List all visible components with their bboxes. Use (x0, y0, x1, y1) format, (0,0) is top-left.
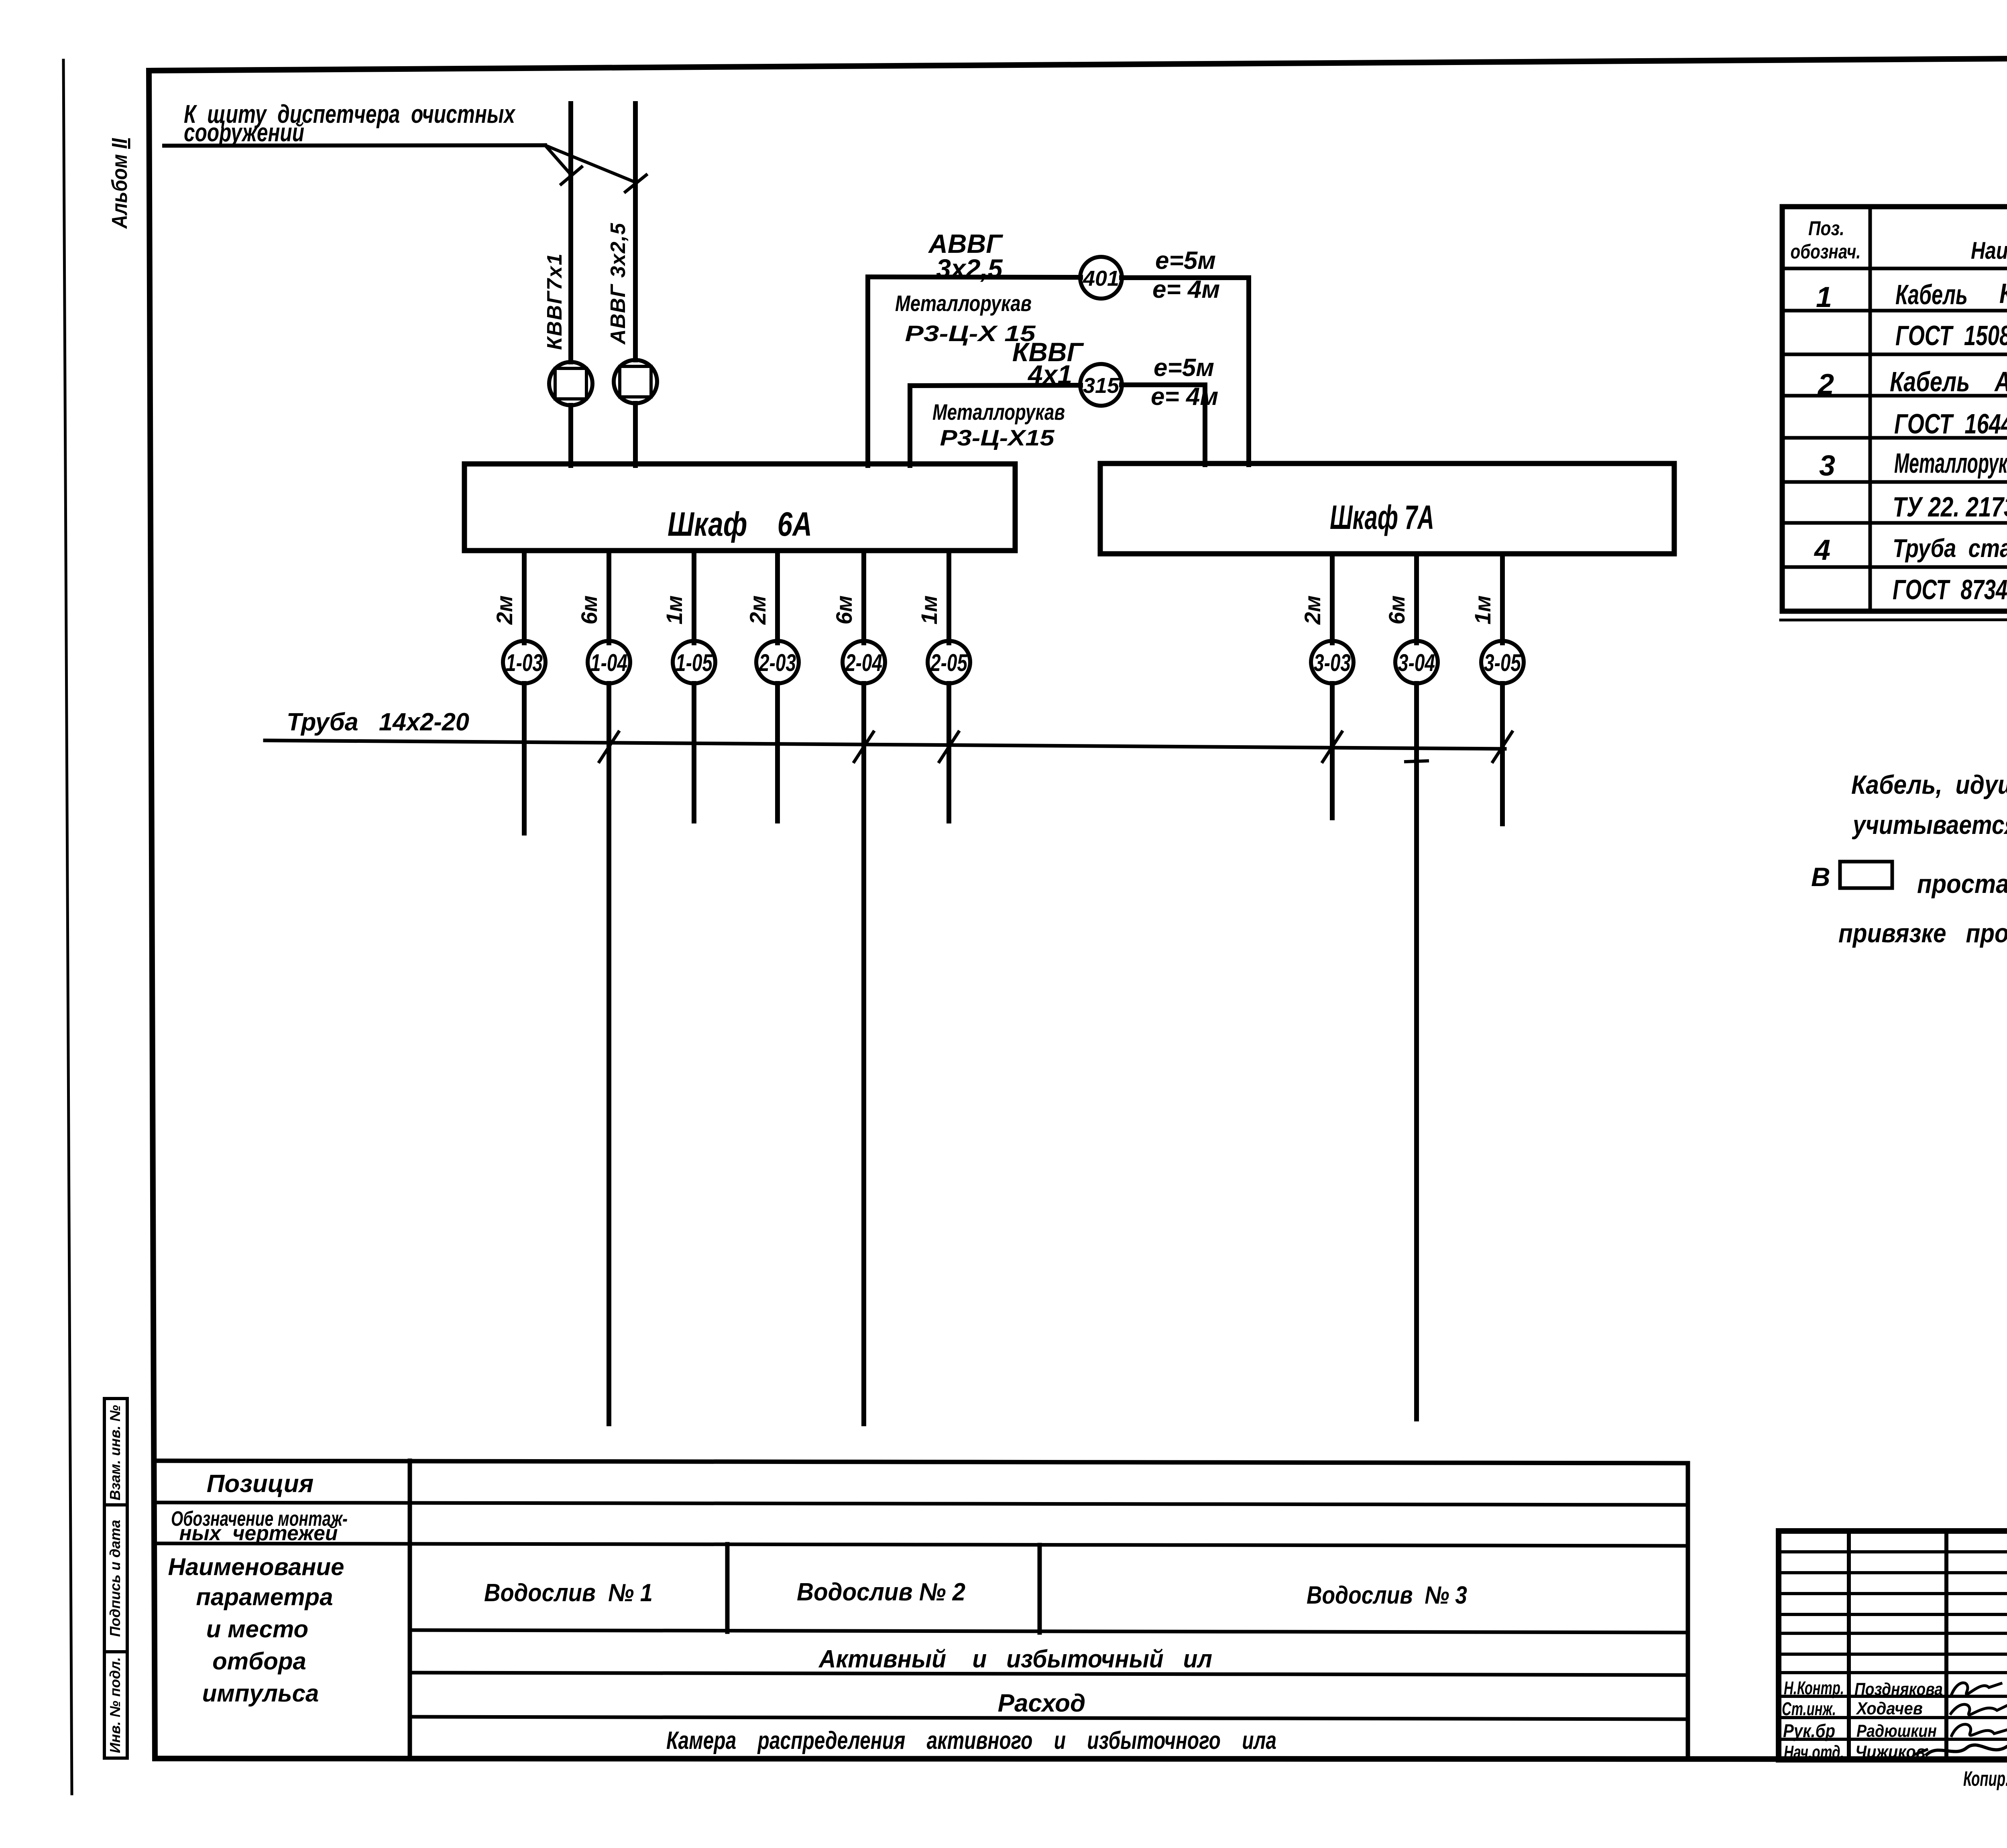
svg-text:Водослив № 3: Водослив № 3 (1307, 1582, 1467, 1609)
svg-text:2-04: 2-04 (845, 649, 882, 676)
svg-text:Н.Контр.: Н.Контр. (1784, 1677, 1844, 1698)
svg-text:сооружений: сооружений (184, 118, 304, 147)
svg-text:Ст.инж.: Ст.инж. (1782, 1698, 1836, 1719)
pipe break slash at 2152 (854, 732, 873, 762)
svg-text:ГОСТ 1508-75: ГОСТ 1508-75 (1895, 320, 2007, 351)
svg-text:Металлорукав: Металлорукав (895, 291, 1032, 316)
wire cable KVVG 7x1 upper (568, 104, 573, 362)
svg-text:Инв. № подл.: Инв. № подл. (107, 1657, 123, 1753)
node 315 cable number circle (1080, 364, 1122, 406)
sensor circle 1-03 (503, 641, 546, 683)
svg-text:Позиция: Позиция (207, 1470, 313, 1498)
svg-text:6м: 6м (1384, 596, 1409, 625)
wire cable AVVG 3x2,5 upper (633, 104, 638, 360)
sensor circle 2-03 (756, 641, 799, 683)
pipe break slash at 3319 (1323, 732, 1342, 762)
wire below 2-03 (775, 683, 780, 821)
row line below rashod (410, 1717, 1688, 1719)
svg-text:3-04: 3-04 (1398, 649, 1435, 676)
svg-text:2м: 2м (492, 596, 517, 625)
svg-text:Шкаф 6А: Шкаф 6А (668, 505, 812, 543)
title block left rows (1779, 1552, 2007, 1739)
svg-text:1: 1 (1816, 281, 1832, 313)
svg-text:ГОСТ 8734-75: ГОСТ 8734-75 (1893, 574, 2007, 605)
connector seal symbol on AVVG cable (614, 360, 657, 403)
wire cable AVVG 3x2,5 lower (633, 403, 638, 466)
svg-text:параметра: параметра (196, 1584, 333, 1610)
svg-text:Альбом II: Альбом II (108, 138, 132, 230)
position table row line 2 (155, 1543, 1688, 1546)
sensor circle 2-04 (843, 641, 885, 683)
wire drop line 2-05 (947, 551, 951, 643)
sensor circle 3-05 (1481, 641, 1524, 683)
svg-text:Радюшкин: Радюшкин (1856, 1721, 1937, 1741)
title block left columns (1849, 1531, 2007, 1760)
svg-text:е=5м: е=5м (1155, 247, 1216, 274)
wire drop line 3-05 (1500, 554, 1505, 643)
svg-text:КВВГ7х1: КВВГ7х1 (543, 254, 566, 350)
wire drop line 2-04 (861, 551, 866, 643)
svg-text:Ходачев: Ходачев (1855, 1699, 1923, 1718)
svg-text:Чижиков: Чижиков (1855, 1742, 1926, 1762)
sensor circle 1-04 (588, 641, 630, 683)
note box symbol (1840, 862, 1892, 888)
svg-text:Взам. инв. №: Взам. инв. № (107, 1405, 123, 1500)
title block outer (1779, 1531, 2007, 1760)
wire cable KVVG 7x1 lower (568, 405, 573, 466)
svg-text:ГОСТ 16442-80: ГОСТ 16442-80 (1894, 408, 2007, 439)
pipe break slash at 3743 (1493, 732, 1512, 762)
svg-text:Водослив № 2: Водослив № 2 (797, 1578, 965, 1606)
svg-text:Расход: Расход (998, 1689, 1086, 1717)
signature Nach.otd (1927, 1744, 2007, 1754)
pipe break slash at 1517 (599, 732, 619, 762)
svg-text:ных чертежей: ных чертежей (179, 1522, 338, 1545)
svg-text:Наименование: Наименование (168, 1553, 344, 1580)
svg-text:Подпись и дата: Подпись и дата (107, 1520, 123, 1637)
left margin strip (104, 1399, 127, 1758)
svg-text:3-05: 3-05 (1484, 649, 1521, 676)
parts table outer (1782, 207, 2007, 611)
svg-text:2-05: 2-05 (930, 649, 968, 676)
svg-text:учитывается в отдельном: учитывается в отдельном проекте. (1852, 810, 2007, 840)
paper edge left (63, 60, 72, 1794)
svg-text:е= 4м: е= 4м (1152, 276, 1220, 303)
parts table columns (1870, 207, 2007, 611)
svg-text:отбора: отбора (212, 1648, 306, 1675)
svg-text:проставляется номер ка: проставляется номер кабеля при (1917, 869, 2007, 899)
svg-text:Труба 14х2-20: Труба 14х2-20 (287, 708, 469, 736)
parts table row lines (1782, 268, 2007, 567)
wire below 1-05 (692, 683, 696, 821)
wire below 3-05 (1500, 683, 1505, 824)
svg-text:КВВГ 4х1: КВВГ 4х1 (1999, 278, 2007, 309)
svg-text:Труба стальная бесшовная 14х: Труба стальная бесшовная 14х2-20 (1893, 534, 2007, 563)
svg-text:3: 3 (1819, 450, 1835, 482)
connector seal symbol on KVVG cable (549, 362, 592, 405)
sensor circle 3-03 (1311, 641, 1354, 683)
svg-text:4: 4 (1814, 534, 1830, 566)
wire drop line 3-03 (1330, 554, 1335, 643)
cabinet U6A box (464, 464, 1015, 551)
position table top (155, 1461, 1688, 1463)
pipe junction tick at 3-04 (1406, 761, 1427, 762)
node 401 cable number circle (1080, 257, 1122, 299)
signature Ruk.br (1952, 1724, 2007, 1736)
svg-text:Кабель: Кабель (1895, 279, 1968, 310)
svg-text:1-03: 1-03 (506, 649, 543, 676)
wire below 2-05 (947, 683, 951, 821)
svg-text:6м: 6м (576, 596, 602, 625)
vodosliv cell separator 2 (1038, 1545, 1042, 1633)
svg-text:315: 315 (1083, 374, 1120, 398)
svg-text:Копир. Лаврухина: Копир. Лаврухина (1963, 1767, 2007, 1791)
svg-text:Рук.бр: Рук.бр (1783, 1720, 1835, 1741)
svg-text:Водослив № 1: Водослив № 1 (484, 1579, 653, 1607)
wire AVVG 3x2,5 loop to cabinet 7A (868, 277, 1249, 466)
svg-text:привязке проекта.: привязке проекта. (1838, 918, 2007, 948)
svg-text:импульса: импульса (202, 1680, 319, 1707)
wire drop line 1-05 (692, 551, 696, 643)
svg-text:2м: 2м (1300, 596, 1325, 625)
wire drop line 2-03 (775, 551, 780, 643)
row line below vodosliv (410, 1630, 1688, 1633)
svg-text:1м: 1м (662, 596, 687, 625)
svg-text:АВВГ 3х2,5: АВВГ 3х2,5 (607, 223, 630, 345)
row line below aktivny (410, 1673, 1688, 1675)
wire leader to KVVG cable (545, 145, 572, 175)
signature N.Kontr (1952, 1683, 2001, 1694)
svg-text:Камера распределения акт: Камера распределения активного и избыточ… (666, 1727, 1276, 1754)
svg-text:ТУ 22. 2173-71: ТУ 22. 2173-71 (1893, 491, 2007, 522)
wire drop line 1-03 (522, 551, 527, 643)
svg-text:Кабель, идущий к щиту д: Кабель, идущий к щиту диспетчера, (1851, 770, 2007, 799)
sensor circle 3-04 (1395, 641, 1438, 683)
wire drop line 3-04 (1414, 554, 1419, 643)
svg-text:обознач.: обознач. (1791, 240, 1861, 263)
svg-text:Наименование: Наименование (1971, 237, 2007, 264)
svg-text:Позднякова: Позднякова (1854, 1679, 1943, 1699)
svg-text:Активный и избыточный и: Активный и избыточный ил (818, 1645, 1212, 1673)
wire below 1-03 (522, 683, 527, 833)
wire below 3-03 (1330, 683, 1335, 818)
svg-text:401: 401 (1083, 266, 1119, 291)
svg-text:Кабель АВВГ- 3х2,5: Кабель АВВГ- 3х2,5 (1890, 366, 2007, 397)
wire below 1-04 (607, 683, 611, 1424)
svg-text:3х2,5: 3х2,5 (936, 254, 1003, 283)
svg-text:Металлорукав Р3-Ц-Х 15: Металлорукав Р3-Ц-Х 15 (1894, 447, 2007, 479)
svg-text:Шкаф 7А: Шкаф 7А (1330, 498, 1434, 536)
note leader underline (164, 145, 545, 146)
svg-text:1м: 1м (1470, 596, 1495, 625)
svg-text:Поз.: Поз. (1808, 217, 1844, 240)
sensor circle 1-05 (673, 641, 715, 683)
pipe line Truba 14x2-20 (265, 740, 1505, 749)
position table right edge (1686, 1463, 1690, 1759)
svg-text:В: В (1811, 862, 1830, 892)
cabinet U7A box (1100, 464, 1674, 554)
svg-text:Р3-Ц-Х15: Р3-Ц-Х15 (940, 425, 1055, 450)
svg-text:и место: и место (206, 1616, 308, 1643)
sensor circle 2-05 (928, 641, 970, 683)
vodosliv cell separator 1 (725, 1544, 730, 1632)
svg-text:Металлорукав: Металлорукав (932, 399, 1065, 425)
position table header separator (408, 1461, 412, 1759)
svg-text:3-03: 3-03 (1314, 649, 1351, 676)
svg-text:1-05: 1-05 (676, 649, 713, 676)
wire KVVG 4x1 loop to cabinet 7A (910, 385, 1205, 466)
svg-text:е=5м: е=5м (1154, 354, 1214, 382)
wire below 3-04 (1414, 683, 1419, 1419)
pipe break slash at 2364 (939, 732, 959, 762)
svg-text:4х1: 4х1 (1027, 360, 1072, 389)
wire leader to AVVG cable (545, 145, 636, 183)
svg-text:2-03: 2-03 (759, 649, 796, 676)
svg-text:6м: 6м (831, 596, 857, 625)
svg-text:Нач.отд.: Нач.отд. (1784, 1742, 1844, 1763)
svg-text:2м: 2м (745, 596, 770, 625)
svg-text:1-04: 1-04 (590, 649, 627, 676)
parts table outer double bottom (1781, 619, 2007, 620)
signature St.inzh (1951, 1704, 2007, 1715)
svg-text:е= 4м: е= 4м (1151, 383, 1218, 411)
wire drop line 1-04 (607, 551, 611, 643)
wire below 2-04 (861, 683, 866, 1424)
svg-text:2: 2 (1817, 368, 1834, 401)
svg-text:1м: 1м (916, 596, 942, 625)
position table row line 1 (155, 1502, 1688, 1505)
